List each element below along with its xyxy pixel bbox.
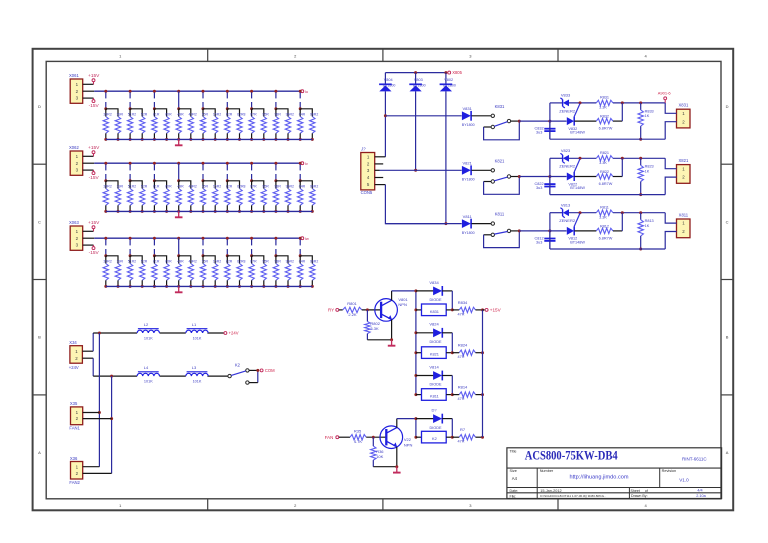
resistor 15R [200,113,208,141]
svg-text:51R2: 51R2 [128,113,136,117]
svg-text:V834: V834 [429,280,439,285]
svg-text:DIODE: DIODE [429,426,441,430]
wire left rail [549,158,551,194]
wire diode to relay contact [472,223,492,225]
wire relay branch 4 left rail [415,419,417,438]
power -15V [89,98,100,109]
junction [451,393,454,396]
wire bottom rail [550,194,665,196]
resistor 15R [200,260,208,288]
connector J? CON5 [360,147,375,195]
svg-text:K2: K2 [432,436,437,441]
svg-text:K2: K2 [235,362,241,367]
svg-text:96R2: 96R2 [310,260,318,264]
resistor 39R [115,260,123,288]
svg-text:1K: 1K [645,224,650,228]
svg-text:R813: R813 [645,219,654,223]
svg-text:R831: R831 [600,96,609,100]
resistor 61R [152,260,160,288]
svg-text:X063: X063 [69,220,79,225]
connector X36 FAN2 [69,456,82,485]
svg-text:BY1800: BY1800 [443,83,456,87]
wire pair link [300,109,312,117]
svg-text:3.3K: 3.3K [599,216,607,220]
wire left rail [549,213,551,249]
resistor R821 3.3K [596,151,613,165]
junction [226,254,229,257]
junction [366,308,369,311]
wire drop [299,239,301,255]
svg-text:6.8R7W: 6.8R7W [599,182,613,186]
svg-text:Iw: Iw [305,236,309,241]
wire pair link [154,109,166,117]
svg-text:File:: File: [510,494,517,498]
title block [507,448,722,499]
wire top rail [550,102,665,104]
svg-text:61R: 61R [153,260,160,264]
svg-text:49R: 49R [177,113,184,117]
junction [414,436,417,439]
wire pair link [252,181,264,189]
junction [153,254,156,257]
wire to crowbar [519,120,550,122]
junction [518,175,521,178]
junction [202,179,205,182]
svg-text:X831: X831 [679,103,689,108]
J? pin 2 stub [375,163,384,165]
resistor 52R [140,113,148,141]
wire drop [251,92,253,108]
ground [388,340,396,346]
wire drop [178,91,180,109]
svg-text:15R: 15R [202,260,209,264]
junction [372,436,375,439]
wire pair link [203,109,215,117]
svg-text:2.10a: 2.10a [696,494,706,498]
resistor 52R [140,185,148,213]
junction [639,101,642,104]
svg-text:49R2: 49R2 [189,113,197,117]
X062 pin 3 wire [83,169,94,171]
junction [226,107,229,110]
diode D? [416,408,452,438]
resistor 49R2 [188,113,197,141]
junction [177,179,180,182]
resistor R802 3.3K [365,310,381,340]
resistor 15R [200,185,208,213]
resistor 62R8 [237,113,246,141]
bottom bus wire [106,210,313,212]
node FAN input [325,435,339,440]
svg-text:K831: K831 [495,104,505,109]
transistor V801 NPN [375,297,409,321]
wire drop [275,92,277,108]
svg-text:101K: 101K [144,380,153,384]
svg-text:of: of [645,489,648,493]
svg-text:101K: 101K [193,336,202,340]
svg-text:R834: R834 [458,300,468,305]
svg-text:L3: L3 [192,365,197,370]
svg-text:52R: 52R [141,185,148,189]
svg-text:FAN: FAN [325,435,334,440]
node Iu [301,89,308,94]
svg-text:K821: K821 [495,158,505,163]
relay coil K811 [416,389,452,401]
wire drop [153,239,155,255]
svg-text:62R8: 62R8 [237,260,245,264]
junction [299,162,302,165]
wire V821 row [380,169,462,171]
svg-text:+15V: +15V [490,308,502,313]
resistor 98R [273,185,281,213]
junction [250,90,253,93]
svg-text:DIODE: DIODE [429,340,441,344]
power -15V [89,245,100,256]
X062 pin 2 stub [83,162,95,164]
resistor 39R2 [103,113,112,141]
svg-text:BY1800: BY1800 [462,178,475,182]
svg-text:4/4: 4/4 [697,488,702,492]
resistor 51R2 [127,113,136,141]
svg-text:C: C [38,219,41,224]
svg-text:+15V: +15V [88,145,100,151]
junction [621,157,624,160]
wire top rail [550,212,665,214]
X811 pin 2 wire [665,232,676,250]
X831 pin 2 wire [665,122,676,140]
resistor 04R [298,113,306,141]
svg-text:51R2: 51R2 [128,260,136,264]
connector X35 FAN1 [69,401,82,430]
top bus wire Iw [94,237,300,239]
svg-text:X062: X062 [69,145,79,150]
svg-text:52R: 52R [141,113,148,117]
svg-text:R821: R821 [600,151,609,155]
svg-text:87R: 87R [250,185,257,189]
top bus wire Iu [94,90,300,92]
junction [414,374,417,377]
svg-text:98R: 98R [274,260,281,264]
resistor R812 6.8R7W [574,213,622,241]
svg-text:-15V: -15V [89,175,100,181]
junction [444,71,447,74]
junction [177,90,180,93]
junction [129,254,132,257]
junction [639,193,642,196]
node X805 [448,70,463,75]
svg-text:49R: 49R [177,185,184,189]
junction [548,229,551,232]
wire pair link [252,256,264,264]
svg-text:95R: 95R [262,260,269,264]
resistor R7 47R [452,427,482,444]
resistor 15R2 [213,260,222,288]
svg-text:-15V: -15V [89,103,100,109]
wire pair link [203,181,215,189]
svg-text:04R: 04R [299,113,306,117]
power +15V [88,145,100,157]
svg-text:L2: L2 [144,322,149,327]
wire pair link [276,181,288,189]
junction gate node [579,101,582,104]
wire drop [129,239,131,255]
X34 pin 1 wire [82,333,93,351]
junction [129,179,132,182]
resistor 61R [152,113,160,141]
wire drop [202,239,204,255]
resistor R813 1K [638,213,654,249]
diode V803 [409,73,425,92]
junction [177,162,180,165]
wire pair link [179,181,191,189]
svg-text:98R: 98R [274,113,281,117]
svg-text:Iv: Iv [305,161,308,166]
svg-text:X805: X805 [452,70,462,75]
diode V824 [416,322,452,353]
thyristor V832 BT148W [550,104,585,135]
zone labels [38,53,729,508]
transistor V22 NPN [380,426,412,449]
connector X831 [677,103,691,128]
junction [129,107,132,110]
X35 pin 1 wire [83,412,100,414]
diode V831 BY1800 [462,106,475,127]
svg-text:60R: 60R [165,185,172,189]
power +15V [88,73,100,85]
resistor 15R2 [213,185,222,213]
svg-text:Number: Number [540,469,554,473]
svg-text:39R: 39R [117,260,124,264]
resistor 95R [261,260,269,288]
connector X821 [677,158,691,183]
junction [414,417,417,420]
resistor 96R2 [310,185,319,213]
junction [639,211,642,214]
junction [451,436,454,439]
wire pair link [130,256,142,264]
wire pair link [227,181,239,189]
resistor R814 47R [452,385,482,402]
wire drop [202,164,204,180]
svg-text:96R2: 96R2 [286,260,294,264]
svg-text:D: D [38,104,41,109]
bottom bus wire [106,138,313,140]
svg-text:ZENER2: ZENER2 [559,108,576,113]
wire drop [153,92,155,108]
wire pair link [154,181,166,189]
svg-text:15R2: 15R2 [213,113,221,117]
junction [202,90,205,93]
resistor R832 6.8R7W [574,103,622,131]
wire drop [178,238,180,256]
junction [104,162,107,165]
wire left column [384,91,386,156]
thyristor V822 BT148W [550,159,585,190]
wire drop [299,92,301,108]
svg-text:3.3K: 3.3K [599,161,607,165]
svg-text:ZENER2: ZENER2 [559,218,576,223]
relay contact K831 [484,104,520,140]
node X805 rail [385,72,446,74]
wire pair link [154,256,166,264]
svg-text:49R2: 49R2 [189,260,197,264]
junction [639,138,642,141]
svg-text:V824: V824 [429,322,439,327]
junction [639,248,642,251]
junction [414,71,417,74]
wire drop [226,164,228,180]
svg-text:6.8R7W: 6.8R7W [599,127,613,131]
wire pair link [227,256,239,264]
junction [299,254,302,257]
resistor 96R2 [310,260,319,288]
resistor 60R [164,260,172,288]
svg-text:Size: Size [510,469,517,473]
svg-text:DIODE: DIODE [429,298,441,302]
wire pair link [300,256,312,264]
junction [226,162,229,165]
resistor 87R [249,113,257,141]
svg-text:62R8: 62R8 [237,185,245,189]
svg-text:2.2K: 2.2K [348,312,357,317]
X061 pin 1 wire [83,83,94,85]
resistor 98R [273,113,281,141]
wire V811 row [385,223,461,225]
switch K2 [228,362,258,384]
svg-text:15R2: 15R2 [213,185,221,189]
wire drop [105,92,107,108]
svg-text:R812: R812 [600,225,609,229]
node COM [260,368,275,373]
junction [153,90,156,93]
svg-text:ACS800-75KW-DB4: ACS800-75KW-DB4 [525,449,619,463]
junction [177,254,180,257]
power +15V [483,308,502,313]
X061 pin 2 stub [83,90,95,92]
svg-text:87R: 87R [250,113,257,117]
junction [202,254,205,257]
junction [299,107,302,110]
node Iv [301,161,308,166]
junction [384,114,387,117]
resistor 62R8 [237,185,246,213]
wire emitter V801 [367,320,391,340]
X063 pin 2 stub [83,237,95,239]
wire right column [445,91,447,223]
wire to crowbar [519,176,550,178]
svg-text:15R: 15R [202,113,209,117]
svg-text:BY1800: BY1800 [462,123,475,127]
svg-text:49R: 49R [177,260,184,264]
wire drop [299,164,301,180]
svg-text:X811: X811 [679,212,689,217]
svg-text:96R2: 96R2 [286,113,294,117]
svg-text:Date:: Date: [510,489,519,493]
resistor 60R [164,113,172,141]
resistor R831 3.3K [596,96,613,110]
wire pair link [227,109,239,117]
ground [393,467,401,473]
X063 pin 1 wire [83,230,94,232]
wire +24V row [93,332,224,334]
bottom bus wire [106,285,313,287]
svg-text:X34: X34 [69,340,77,345]
junction [390,338,393,341]
diode V814 [416,364,452,394]
junction [104,179,107,182]
svg-text:101K: 101K [193,380,202,384]
svg-text:15R2: 15R2 [213,260,221,264]
resistor 87R [249,260,257,288]
svg-text:V804: V804 [384,78,393,82]
svg-text:RINT-6611C: RINT-6611C [682,457,707,462]
svg-text:87R: 87R [250,260,257,264]
svg-text:96R2: 96R2 [310,113,318,117]
svg-text:62R: 62R [226,260,233,264]
wire pair link [130,181,142,189]
junction [177,107,180,110]
junction [299,90,302,93]
junction [274,237,277,240]
junction [414,289,417,292]
J? pin 1 wire [375,156,386,158]
svg-text:04R: 04R [299,260,306,264]
svg-text:95R: 95R [262,113,269,117]
svg-text:K811: K811 [430,394,439,399]
resistor 39R [115,185,123,213]
svg-text:D?: D? [431,408,437,413]
resistor 04R [298,260,306,288]
wire pair link [106,109,118,117]
resistor 62R [225,113,233,141]
svg-text:39R2: 39R2 [103,113,111,117]
svg-text:15-Jan-2012: 15-Jan-2012 [540,489,561,493]
junction [518,120,521,123]
svg-text:R823: R823 [645,165,654,169]
wire pair link [179,109,191,117]
junction [548,120,551,123]
junction [621,101,624,104]
svg-text:60R: 60R [165,260,172,264]
J? pin 4 stub [375,177,384,179]
resistor 39R [115,113,123,141]
diode V802 [440,73,456,92]
svg-text:K831: K831 [430,309,439,314]
svg-text:BT148W: BT148W [570,186,585,190]
inductor L2 101K [137,322,159,340]
connector X063 [69,220,83,250]
connector X34 [69,340,83,370]
junction [177,237,180,240]
svg-text:A: A [38,450,41,455]
junction [639,157,642,160]
resistor 61R [152,185,160,213]
resistor R822 6.8R7W [574,158,622,186]
junction gate node [579,157,582,160]
capacitor C832 3u3 [535,121,556,139]
node RY input [328,308,339,313]
resistor 51R2 [127,185,136,213]
J? pin 5 wire [375,185,446,224]
junction [274,162,277,165]
svg-text:NPN: NPN [398,302,407,307]
svg-text:C: C [726,219,729,224]
svg-text:COM: COM [265,368,275,373]
junction [414,393,417,396]
svg-text:R35: R35 [354,428,362,433]
junction [98,411,101,414]
wire pair link [252,109,264,117]
